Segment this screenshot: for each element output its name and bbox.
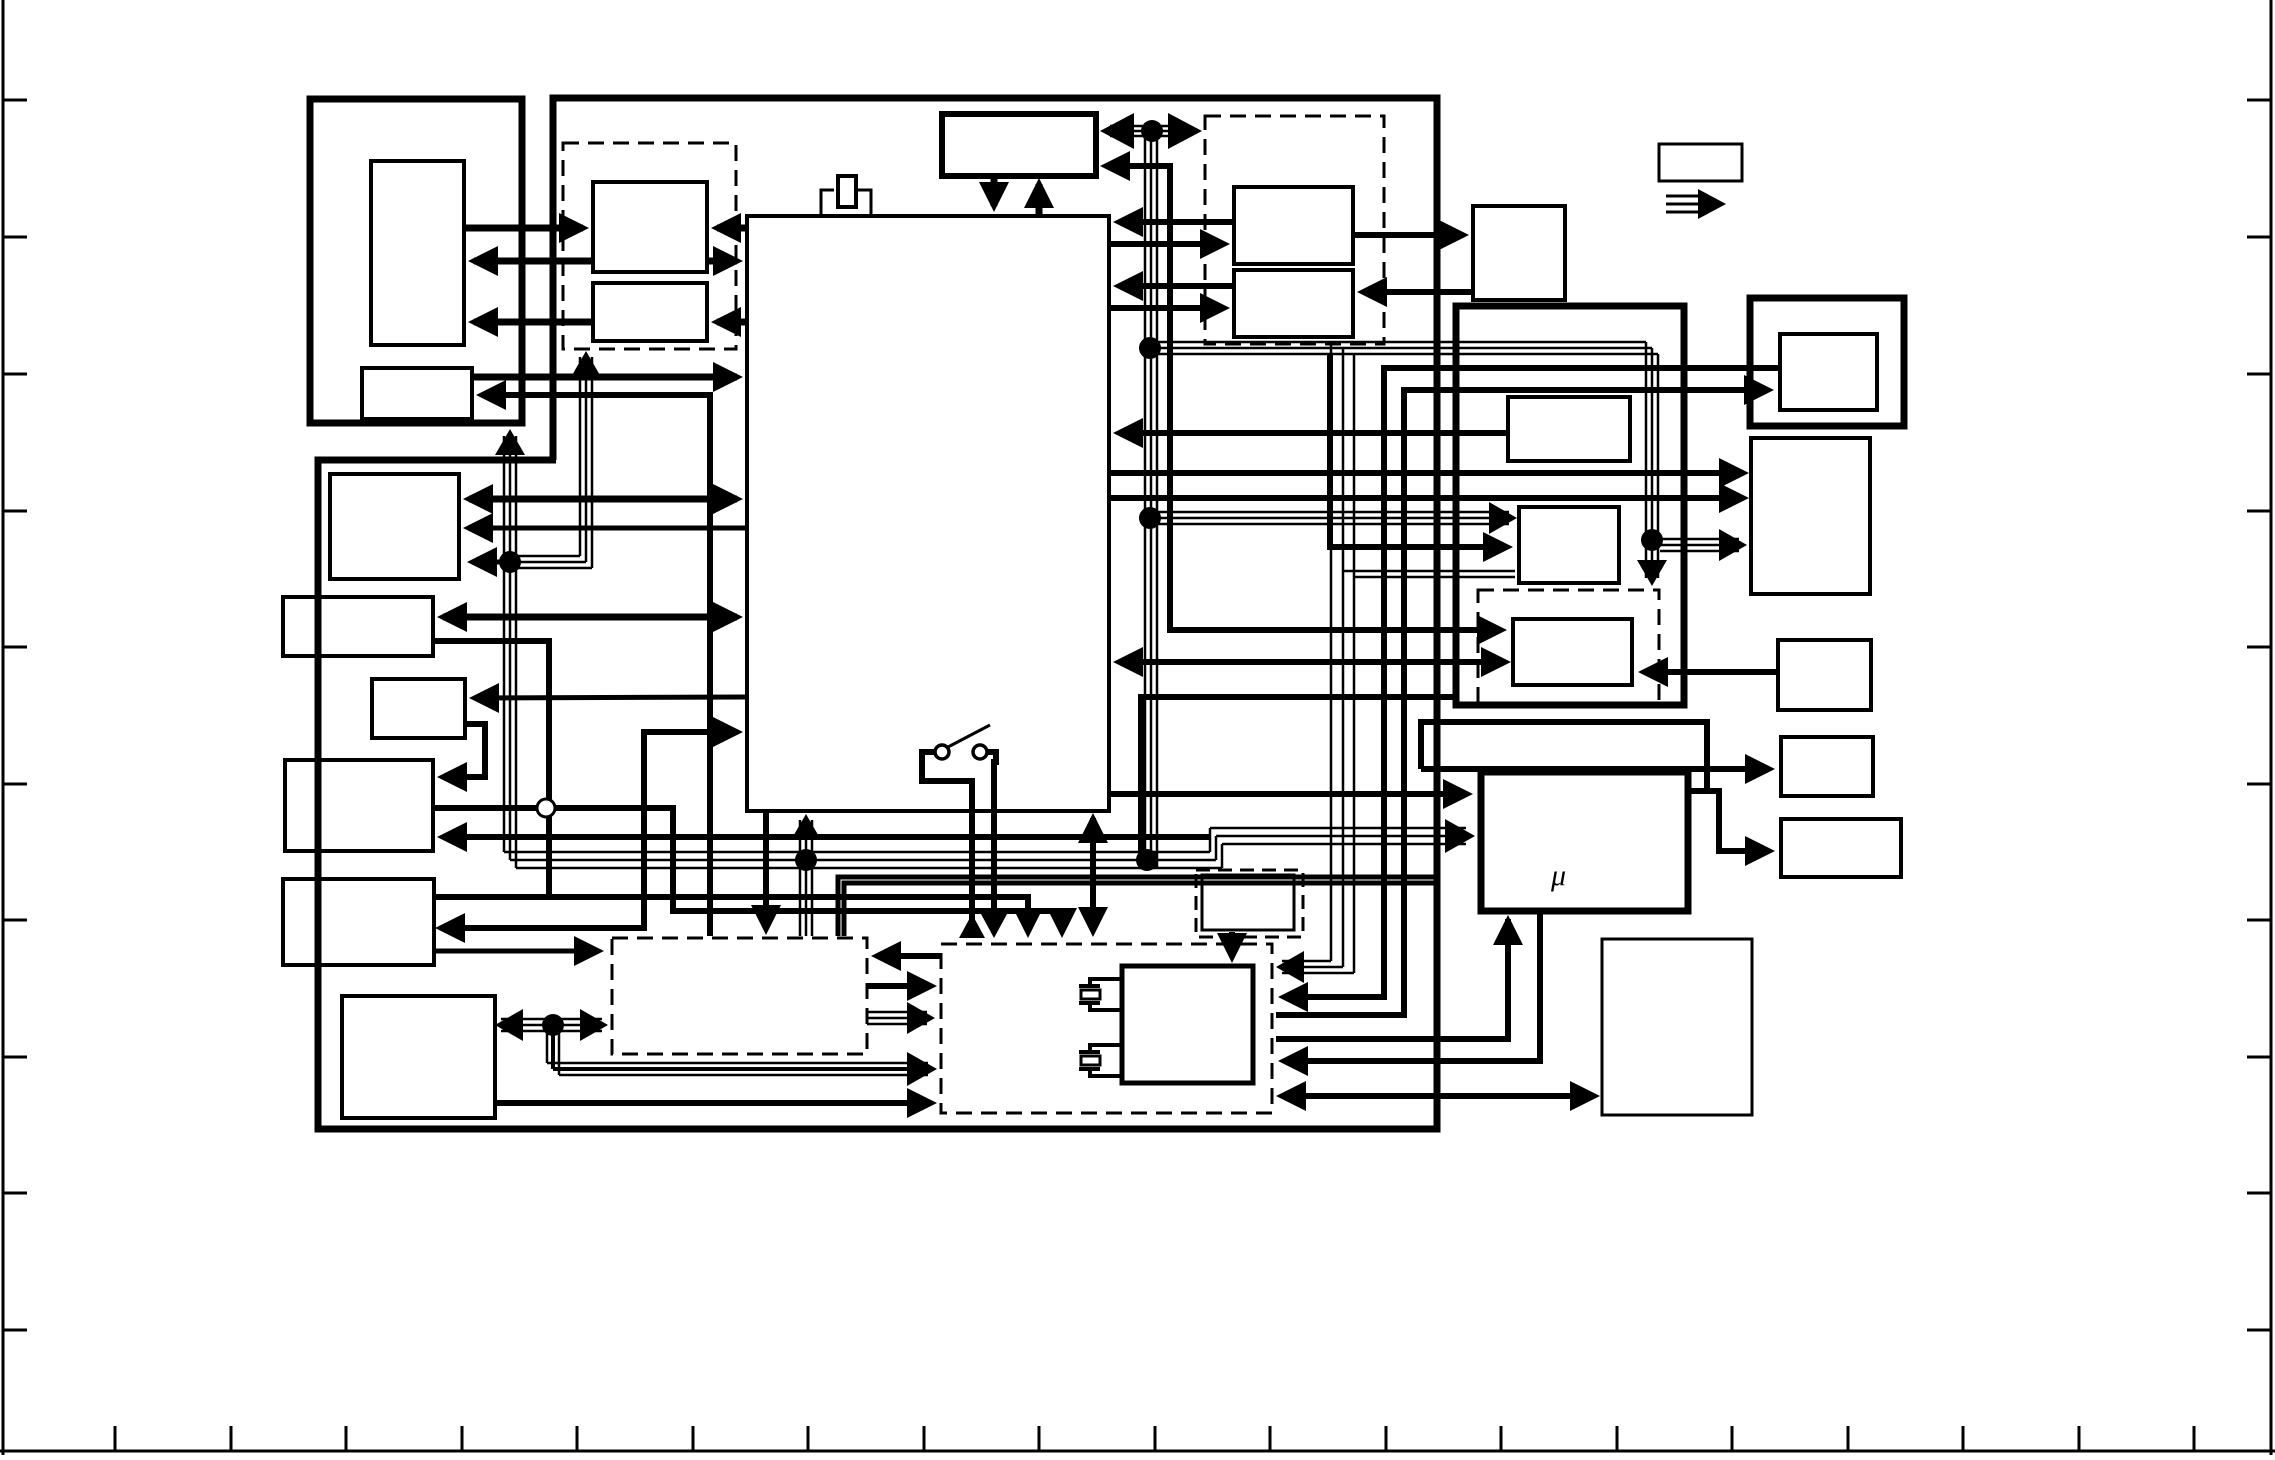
bus: junction down to power B (546, 1025, 549, 1063)
wire: IC to D2 (1109, 305, 1224, 311)
wire: IC to D1 (1109, 241, 1224, 247)
wire: left6 y897 rail to power B (434, 897, 1028, 930)
bus: main vertical triple (1144, 131, 1147, 852)
wire: IC to interface-upper right (717, 225, 747, 232)
wire: D2 to IC (1119, 283, 1234, 289)
wire: switch left leg (922, 752, 972, 938)
block: small C inner (1202, 875, 1294, 930)
block: right unit R5 (1781, 819, 1901, 877)
svg-text:μ: μ (1550, 859, 1566, 892)
dashed group: right container bottom (1478, 590, 1659, 703)
wire: interface-upper to blockA (474, 258, 593, 265)
block: top center unit (942, 114, 1096, 176)
block: right thick container (1456, 306, 1684, 705)
wire: left3 down to y897 rail (433, 641, 549, 895)
block: left column 5 (285, 760, 433, 851)
arrow: power sense up from PSU to switch (959, 914, 985, 938)
bus: right container vertical triple (1645, 342, 1648, 578)
drawing frame left border (2, 0, 5, 1455)
drawing frame bottom border (0, 1450, 2275, 1453)
arrow: C down to relay (1229, 932, 1235, 957)
wire: D1 to RB2 (1353, 232, 1463, 238)
block: right mid unit (1778, 640, 1871, 710)
wire: left2 to IC bidirectional (469, 496, 737, 503)
block: left column 2 (330, 474, 459, 579)
wire: left2 from bus dot (473, 560, 512, 565)
block: bottom right unit (1602, 939, 1752, 1115)
bus: left7 to power A bidirectional (501, 1018, 602, 1021)
wire: IC arrow via x644 (441, 732, 737, 928)
wire: bridge to R4 (1421, 722, 1707, 791)
block: right container rect1 (1508, 397, 1630, 461)
node: bus junction right (1136, 849, 1158, 871)
wire: power B up to micro (1276, 919, 1508, 1039)
block: top-left inner block B (362, 368, 472, 419)
wire: rect1 to IC (1119, 430, 1508, 436)
block: left column 4 (small) (372, 679, 465, 738)
wire: blockB from bus x710 (482, 395, 710, 936)
wire: power B to power A (879, 953, 941, 959)
wire: interface-upper to IC (707, 258, 737, 265)
wire: blockA to interface-upper (464, 225, 583, 232)
node: bus tap 1 (1139, 337, 1161, 359)
wire: left2 from IC (469, 526, 747, 531)
bus: vertical triple to dashed interface (579, 357, 582, 556)
crystal symbol on IC top (821, 190, 834, 215)
wire: IC to right tall 2 (1109, 495, 1743, 501)
bus: step up to micro (1209, 828, 1212, 852)
node: bus junction left7 (542, 1014, 564, 1036)
wire: power A to power B (867, 983, 929, 989)
block: left column 7 (bottom) (342, 996, 495, 1118)
arrow: bus down into dashed R (1637, 560, 1667, 586)
node: bus tap 2 (1139, 507, 1161, 529)
block: main IC (large) (747, 216, 1109, 811)
block: right top unit (thick) (1750, 298, 1904, 426)
drawing frame right border (2270, 0, 2273, 1455)
wire: PSU return to left5 (443, 834, 1210, 840)
crossover hop (537, 799, 555, 817)
wire: top unit to dashed interface bidirectional bus (1110, 125, 1190, 128)
block: top-left unit (thick) (310, 99, 522, 423)
main board outline (L-shaped) (318, 98, 1437, 1129)
wire: thin pair to rect2 (1343, 570, 1515, 573)
wire: IC to rect3 bidirectional (1119, 659, 1505, 665)
dashed group: power block B (941, 944, 1272, 1113)
wire: micro down to power B (1284, 911, 1540, 1061)
resonator symbol upper (1079, 984, 1100, 988)
arrow: IC and PSU vertical x1093 (1090, 818, 1096, 931)
wire: left5 output via x673 (433, 808, 1062, 930)
bus: junction to right tall (1660, 538, 1739, 541)
dashed group: power block A (612, 938, 867, 1054)
block: top-left inner block A (371, 161, 464, 345)
dashed group: top-right interface (1205, 116, 1384, 344)
wire: rect3 to top unit via x1170 (1106, 166, 1501, 630)
wire: left7 to power B (495, 1100, 929, 1106)
node: junction top bus (1141, 120, 1163, 142)
block: right top unit inner (1780, 334, 1877, 410)
wire: IC to right tall 1 (1109, 470, 1743, 476)
wire: pair rails y877 y883 to right (838, 877, 1437, 936)
right ruler ticks (2247, 99, 2271, 102)
block: top-right small (1659, 144, 1742, 181)
block: relay/transformer (1122, 966, 1253, 1083)
bottom ruler ticks (114, 1426, 117, 1451)
wire: left3 to IC bidirectional (443, 614, 737, 621)
bus: tap down to power B (1330, 342, 1333, 961)
bus: branch up into IC bottom (799, 820, 802, 936)
bus: vertical triple to top-left box (503, 436, 506, 852)
bus arrow: top-right triple (1666, 195, 1702, 198)
switch symbol inside IC (935, 745, 949, 759)
block: top-right interface upper (1234, 187, 1353, 264)
dashed group: left interface (563, 143, 736, 349)
arrow: top unit down to IC (991, 179, 998, 206)
block: left column 6 (283, 879, 434, 965)
wire: right mid to rect3 (1644, 669, 1778, 675)
node: bus junction under IC (795, 849, 817, 871)
wire: power B to bottom-right bidirectional (1282, 1093, 1594, 1099)
block: top-right interface lower (1234, 270, 1353, 337)
wire: micro stub to R5 (1688, 791, 1769, 851)
wire: IC to micro (1111, 791, 1467, 797)
bus: tap to right container (1153, 341, 1646, 344)
dashed group: small C (1196, 870, 1303, 937)
bus: bottom horizontal triple (504, 851, 1210, 854)
block: left interface upper (593, 182, 707, 272)
node: right bus junction (1641, 529, 1663, 551)
block: right container rect2 (1519, 507, 1619, 583)
wire: IC to interface-lower (717, 319, 747, 326)
block: right container rect3 (1513, 619, 1632, 685)
left ruler ticks (3, 99, 27, 102)
block: left column 3 (wide) (283, 597, 433, 656)
node: bus junction left (499, 551, 521, 573)
block: microcontroller (u) (1481, 772, 1688, 911)
wire: RB2 to D2 (1363, 289, 1473, 295)
block: right unit R4 (1781, 737, 1873, 796)
block: right of interface (RB2) (1473, 206, 1565, 300)
wire: stub x1141 (1141, 697, 1456, 852)
wire: RT inner via x1404 to power B (1276, 390, 1768, 1015)
block: left interface lower (593, 283, 707, 341)
arrow: IC down to power block A (763, 811, 769, 929)
arrow: IC up to top unit (1036, 184, 1043, 215)
wire: left4 from IC (475, 697, 747, 698)
wire: left4 to left5 (443, 724, 485, 777)
wire: interface-lower to blockA (474, 319, 593, 326)
bus: power A to power B triple (867, 1011, 927, 1014)
wire: left6 to power A (434, 949, 598, 954)
block: right tall unit (1751, 438, 1870, 594)
resonator symbol lower (1079, 1050, 1100, 1054)
wire: thick to rect2 (1330, 354, 1507, 547)
bus: tap to rect2 (1153, 511, 1509, 514)
wire: RT inner via x1384 to power B (1284, 368, 1780, 997)
wire: blockB to IC (472, 374, 737, 381)
wire: D1 to IC (1119, 219, 1234, 225)
wire: switch right leg down to PSU (987, 752, 996, 933)
